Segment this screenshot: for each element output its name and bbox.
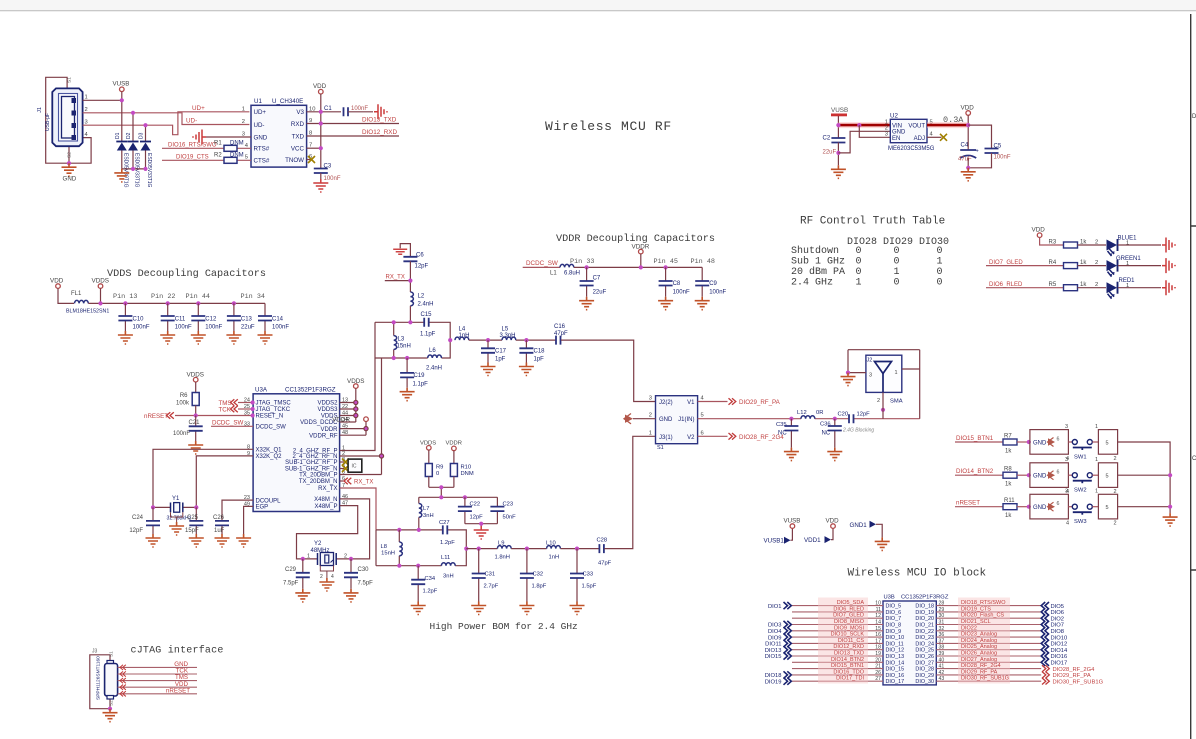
- svg-text:DIO8: DIO8: [1051, 629, 1065, 635]
- capacitor C18: [519, 340, 545, 362]
- vddr section title: [556, 233, 715, 245]
- svg-text:Wireless MCU IO block: Wireless MCU IO block: [848, 568, 987, 580]
- svg-text:DIO12_RXD: DIO12_RXD: [833, 644, 864, 650]
- GND arrow port: [624, 414, 656, 424]
- svg-text:J2(2): J2(2): [659, 400, 673, 406]
- svg-text:Shutdown: Shutdown: [791, 245, 839, 257]
- svg-text:1: 1: [895, 370, 898, 376]
- svg-text:DIO7_GLED: DIO7_GLED: [833, 613, 864, 619]
- svg-text:Pin 13: Pin 13: [113, 293, 137, 301]
- svg-text:2.4 GHz: 2.4 GHz: [791, 277, 833, 288]
- svg-text:CC1352P1F3RGZ: CC1352P1F3RGZ: [285, 387, 336, 394]
- junction SMA stem: [881, 408, 885, 412]
- svg-text:DIO12: DIO12: [1051, 642, 1068, 648]
- vdds section title: [107, 268, 266, 280]
- net label UD-: [186, 118, 197, 125]
- ground C29: [295, 589, 310, 602]
- svg-text:DIO2: DIO2: [1051, 616, 1065, 622]
- svg-text:R10: R10: [461, 465, 472, 471]
- svg-text:DIO_9: DIO_9: [886, 629, 902, 635]
- svg-text:C4: C4: [961, 142, 969, 148]
- junction S2: [67, 161, 71, 165]
- SW1 out wire: [1118, 442, 1171, 513]
- svg-text:V2: V2: [687, 435, 695, 441]
- wire D2 drop: [132, 113, 134, 142]
- svg-text:SPPH1126SMT1160: SPPH1126SMT1160: [96, 656, 102, 700]
- junction C31: [477, 547, 481, 551]
- net VDDS right rail: [347, 378, 365, 422]
- VDDS2 wire: [340, 400, 358, 404]
- junction C33: [575, 547, 579, 551]
- svg-text:VDDR_RF: VDDR_RF: [309, 433, 338, 439]
- table values: [856, 246, 943, 288]
- ground C30: [344, 589, 359, 602]
- svg-text:GND1: GND1: [850, 522, 868, 529]
- svg-text:DIO_28: DIO_28: [915, 667, 934, 673]
- right io wires: [936, 606, 1041, 682]
- inductor L8: [376, 530, 402, 566]
- svg-text:DIO13: DIO13: [765, 648, 782, 654]
- regulator U2 body: [888, 113, 935, 153]
- junction C22 top: [463, 495, 467, 499]
- svg-text:VDD1: VDD1: [804, 537, 821, 544]
- ground C21: [188, 441, 203, 454]
- svg-text:NC: NC: [822, 431, 831, 437]
- svg-text:UD+: UD+: [254, 109, 267, 116]
- U3B right pin names: [915, 604, 934, 686]
- svg-text:DIO16_TDO: DIO16_TDO: [833, 669, 864, 675]
- net label DCDC_SW at pin33: [211, 419, 253, 426]
- frame zone letter C: [1192, 456, 1196, 462]
- svg-text:12pF: 12pF: [470, 515, 484, 521]
- svg-text:R6: R6: [180, 393, 188, 399]
- diode D3: [139, 132, 153, 187]
- vddr bus wire: [574, 266, 702, 268]
- svg-text:S1: S1: [657, 445, 664, 451]
- junction R6/nRESET: [194, 413, 198, 417]
- svg-text:1.8nH: 1.8nH: [495, 555, 510, 561]
- svg-text:2: 2: [320, 574, 323, 580]
- svg-text:DIO_8: DIO_8: [886, 623, 902, 629]
- svg-text:12pF: 12pF: [129, 528, 143, 534]
- capacitor C1: [324, 106, 373, 116]
- ground C34: [411, 602, 426, 615]
- svg-text:3: 3: [649, 396, 652, 402]
- svg-text:3nH: 3nH: [423, 513, 434, 519]
- ground jtag: [103, 709, 118, 722]
- net label DIO13_TXD: [362, 116, 397, 123]
- svg-text:12pF: 12pF: [857, 412, 871, 418]
- matching loop wires: [375, 322, 450, 358]
- ground under diodes: [114, 169, 129, 182]
- svg-text:DIO_29: DIO_29: [915, 673, 934, 679]
- junction V3/VDD: [319, 110, 323, 114]
- svg-text:C7: C7: [593, 276, 601, 282]
- svg-text:1pF: 1pF: [495, 357, 506, 363]
- svg-text:100nF: 100nF: [709, 290, 726, 296]
- net label nRESET: [144, 412, 253, 420]
- pin 1 wire: [83, 99, 122, 101]
- svg-text:0: 0: [436, 471, 439, 477]
- net label nRESET at SW3: [955, 500, 1003, 507]
- ground EGP: [236, 534, 251, 547]
- svg-text:C19: C19: [414, 373, 426, 379]
- svg-text:C35: C35: [776, 422, 787, 428]
- svg-text:1: 1: [894, 267, 900, 278]
- right net labels: [961, 600, 1009, 682]
- svg-text:2.4nH: 2.4nH: [418, 302, 434, 308]
- svg-text:ESD05V30T1G: ESD05V30T1G: [123, 153, 129, 188]
- capacitor C30: [344, 559, 373, 589]
- svg-text:S2: S2: [109, 700, 114, 706]
- diode D2: [126, 132, 140, 187]
- svg-text:DIO_19: DIO_19: [915, 610, 934, 616]
- VCC pin wire: [307, 147, 321, 149]
- svg-text:RX_TX: RX_TX: [354, 480, 373, 486]
- svg-text:TXD: TXD: [292, 133, 305, 140]
- svg-text:100nF: 100nF: [205, 325, 222, 331]
- svg-text:D2: D2: [126, 132, 132, 139]
- svg-text:2: 2: [885, 126, 888, 132]
- CTS wire: [162, 159, 251, 161]
- svg-text:DIO_16: DIO_16: [886, 673, 905, 679]
- svg-text:VUSB: VUSB: [113, 81, 130, 88]
- junction EN tap: [857, 123, 861, 127]
- svg-text:ME6203C53M5G: ME6203C53M5G: [888, 146, 935, 152]
- svg-text:50nF: 50nF: [503, 515, 517, 521]
- svg-text:C23: C23: [503, 502, 514, 508]
- ground under C3: [313, 179, 328, 192]
- svg-text:VUSB: VUSB: [784, 518, 801, 525]
- svg-text:C: C: [1192, 456, 1196, 462]
- svg-text:R2: R2: [214, 153, 222, 159]
- svg-text:DIO7: DIO7: [1051, 623, 1065, 629]
- resistor R4: [1049, 260, 1088, 269]
- capacitor C33: [570, 549, 597, 602]
- ground C24: [146, 534, 161, 547]
- svg-text:DIO23_Analog: DIO23_Analog: [961, 632, 997, 638]
- capacitor C21: [173, 416, 203, 442]
- TXD wire: [307, 135, 399, 137]
- svg-text:VCC: VCC: [291, 146, 305, 153]
- svg-text:DIO18_RTS/SWO: DIO18_RTS/SWO: [961, 600, 1006, 606]
- svg-text:DIO14_BTN2: DIO14_BTN2: [831, 657, 864, 663]
- capacitor C3: [314, 164, 341, 183]
- connector S1 body: [656, 396, 698, 451]
- svg-text:DIO15_BTN1: DIO15_BTN1: [831, 663, 864, 669]
- svg-text:L3: L3: [398, 337, 405, 343]
- X48M_N wire: [340, 499, 370, 559]
- svg-text:NC: NC: [778, 431, 787, 437]
- svg-text:DIO_15: DIO_15: [886, 667, 905, 673]
- svg-text:C15: C15: [421, 312, 433, 318]
- Y1 case ground: [169, 512, 184, 535]
- svg-text:DIO_20: DIO_20: [915, 616, 934, 622]
- capacitor C25: [185, 507, 203, 534]
- DCOUPL wire + capacitor C26: [213, 500, 253, 534]
- SUB-1_GHZ_RF_N no connect: [340, 465, 349, 472]
- capacitor C15: [420, 312, 436, 337]
- svg-text:4: 4: [331, 574, 334, 580]
- ground buttons common: [1163, 513, 1178, 526]
- svg-text:DIO28_RF_2G4: DIO28_RF_2G4: [1053, 667, 1096, 673]
- svg-text:R3: R3: [1049, 239, 1057, 245]
- svg-text:0: 0: [894, 277, 900, 288]
- svg-text:5: 5: [1106, 441, 1109, 447]
- io block title: [848, 568, 987, 580]
- junction VDDS: [98, 301, 102, 305]
- junction C17: [486, 338, 490, 342]
- ground C12: [191, 331, 206, 344]
- svg-text:DIO19: DIO19: [765, 679, 782, 685]
- svg-text:C2: C2: [823, 136, 831, 142]
- ground C35: [784, 448, 799, 461]
- svg-text:UD+: UD+: [192, 105, 205, 112]
- right io port labels: [1051, 604, 1069, 667]
- svg-text:DIO3: DIO3: [768, 623, 782, 629]
- svg-text:VDD: VDD: [1032, 227, 1046, 234]
- SUB-1_GHZ_RF_P no connect: [340, 459, 349, 466]
- resistor R7: [1003, 434, 1030, 455]
- junction R8 out: [1027, 473, 1031, 477]
- svg-text:Pin 48: Pin 48: [691, 258, 715, 266]
- ground C17: [481, 363, 496, 376]
- junction VUSB rail: [836, 123, 840, 127]
- VDDS3 wire: [340, 407, 358, 411]
- ground SMA: [841, 373, 856, 386]
- svg-text:C31: C31: [485, 572, 496, 578]
- svg-text:0: 0: [937, 246, 943, 257]
- svg-text:RX_TX: RX_TX: [318, 486, 337, 492]
- U3B left pin names: [886, 604, 905, 686]
- ground C8: [658, 297, 673, 310]
- net VDD at U1: [313, 83, 327, 169]
- svg-text:3: 3: [1065, 489, 1068, 495]
- svg-text:100nF: 100nF: [173, 431, 190, 437]
- svg-text:DIO16_RTS/SWO: DIO16_RTS/SWO: [168, 142, 217, 148]
- svg-text:DIO_25: DIO_25: [915, 648, 934, 654]
- R9/R10 join wire: [429, 487, 454, 497]
- svg-text:DIO19_CTS: DIO19_CTS: [176, 154, 209, 160]
- svg-text:C20: C20: [838, 412, 849, 418]
- port VUSB1: [764, 518, 801, 545]
- top bus to C27: [376, 530, 466, 549]
- svg-text:2: 2: [242, 119, 245, 125]
- capacitor C2: [823, 136, 846, 166]
- svg-text:DIO12_RXD: DIO12_RXD: [362, 129, 397, 136]
- svg-text:X32K_Q2: X32K_Q2: [256, 454, 283, 460]
- svg-text:1uF: 1uF: [214, 528, 225, 534]
- svg-text:UD-: UD-: [186, 118, 197, 125]
- svg-text:VOUT: VOUT: [908, 123, 925, 129]
- V3 pin wire: [307, 111, 341, 113]
- svg-text:R4: R4: [1049, 260, 1057, 266]
- svg-text:DIO7_GLED: DIO7_GLED: [989, 260, 1023, 266]
- svg-text:JTAG_TCKC: JTAG_TCKC: [256, 407, 291, 413]
- svg-text:DIO17: DIO17: [1051, 661, 1068, 667]
- net VDDR at R10: [446, 441, 462, 464]
- resistor R5: [1049, 282, 1088, 291]
- svg-text:DIO4: DIO4: [768, 629, 782, 635]
- connector J1 USB frame wire: [46, 77, 91, 163]
- resistor R3: [1049, 239, 1088, 248]
- svg-text:TNOW: TNOW: [285, 157, 304, 164]
- capacitor C27: [439, 520, 455, 546]
- svg-text:GND: GND: [1033, 474, 1047, 480]
- RTS wire: [162, 147, 251, 149]
- bom caption: [430, 621, 578, 632]
- wire LED2 to gnd: [1118, 265, 1161, 267]
- junction SW2 common: [1168, 473, 1172, 477]
- wire R3 to LED1: [1078, 240, 1107, 246]
- svg-text:C11: C11: [175, 317, 186, 323]
- capacitor C28: [597, 538, 612, 567]
- svg-text:3: 3: [1065, 457, 1068, 463]
- svg-text:1.2pF: 1.2pF: [423, 589, 438, 595]
- svg-text:J1: J1: [37, 107, 43, 113]
- svg-text:2: 2: [85, 107, 88, 113]
- svg-text:2: 2: [877, 398, 880, 404]
- ground right of LED2: [1162, 258, 1175, 273]
- X32K_Q2 wire: [196, 456, 253, 508]
- junction C35: [789, 417, 793, 421]
- svg-text:SUB-1_GHZ_RF_P: SUB-1_GHZ_RF_P: [285, 460, 337, 466]
- svg-text:ESD05V33T1G: ESD05V33T1G: [134, 153, 140, 188]
- svg-text:47uF: 47uF: [958, 157, 972, 163]
- svg-text:R9: R9: [436, 465, 443, 471]
- svg-text:C16: C16: [554, 324, 566, 330]
- ground right of LED1: [1162, 238, 1175, 253]
- junction Y2 pin2: [349, 557, 353, 561]
- svg-text:C14: C14: [272, 317, 284, 323]
- svg-text:SMA: SMA: [890, 399, 903, 405]
- svg-text:4: 4: [1066, 521, 1069, 527]
- net label UD+: [192, 105, 205, 112]
- svg-text:100k: 100k: [176, 401, 190, 407]
- cjtag pin wires: [118, 667, 197, 693]
- svg-text:1.2pF: 1.2pF: [440, 540, 455, 546]
- svg-text:Y2: Y2: [314, 541, 322, 547]
- junction chain node: [464, 547, 468, 551]
- svg-text:C13: C13: [241, 317, 253, 323]
- connector J3 body: [96, 656, 118, 700]
- svg-text:L7: L7: [423, 506, 429, 512]
- svg-text:Pin 34: Pin 34: [241, 293, 265, 301]
- svg-text:0: 0: [894, 246, 900, 257]
- svg-text:J2: J2: [867, 358, 873, 364]
- right rf chevrons: [1042, 665, 1049, 684]
- svg-text:0: 0: [894, 256, 900, 267]
- svg-text:DIO6_RLED: DIO6_RLED: [833, 606, 864, 612]
- wire LED3 to gnd: [1118, 287, 1161, 289]
- svg-text:1k: 1k: [1005, 513, 1012, 519]
- right io port arrows: [1041, 602, 1049, 666]
- svg-text:DIO18: DIO18: [765, 673, 782, 679]
- junction bus feed: [439, 495, 443, 499]
- VDDR_RF wire: [340, 434, 366, 436]
- svg-text:J1(IN): J1(IN): [678, 417, 694, 423]
- capacitor C20: [838, 412, 875, 434]
- svg-text:DIO24_Analog: DIO24_Analog: [961, 638, 997, 644]
- net label DIO19_CTS: [176, 154, 209, 160]
- svg-text:22uF: 22uF: [593, 290, 607, 296]
- svg-text:C29: C29: [285, 567, 297, 573]
- LED GREEN1: [1107, 256, 1142, 277]
- svg-text:U3A: U3A: [255, 387, 268, 394]
- svg-text:0: 0: [856, 246, 862, 257]
- MCU U3A body: [253, 387, 340, 512]
- svg-text:CC1352P1F3RGZ: CC1352P1F3RGZ: [901, 595, 949, 601]
- svg-text:3: 3: [1065, 424, 1068, 430]
- svg-text:DIO_30: DIO_30: [915, 679, 934, 685]
- junction L2 top edge: [408, 320, 412, 324]
- svg-text:1: 1: [649, 430, 652, 436]
- junction C18: [524, 338, 528, 342]
- capacitor C23: [490, 502, 516, 524]
- LED RED1: [1107, 278, 1136, 299]
- wire VDD to C5 branch: [968, 125, 991, 148]
- capacitor C11: [161, 301, 192, 331]
- svg-text:C8: C8: [673, 281, 681, 287]
- svg-text:VDDR: VDDR: [320, 427, 338, 433]
- svg-text:1: 1: [1126, 241, 1129, 247]
- table rows: [791, 245, 845, 288]
- svg-text:High Power BOM for 2.4 GHz: High Power BOM for 2.4 GHz: [430, 621, 578, 632]
- capacitor C10: [118, 301, 149, 331]
- switch SW3: [1065, 489, 1118, 527]
- ground C18: [519, 363, 534, 376]
- svg-text:DIO5_SDA: DIO5_SDA: [837, 600, 865, 606]
- svg-text:6: 6: [701, 430, 704, 436]
- net label VUSB highlighted: [831, 107, 848, 138]
- svg-text:DIO_12: DIO_12: [886, 648, 905, 654]
- net VDD at LEDs: [1032, 227, 1064, 246]
- inductor L5: [500, 327, 557, 341]
- resistor R8: [1003, 467, 1030, 488]
- ground under C2: [831, 165, 846, 178]
- svg-text:X48M_N: X48M_N: [314, 497, 337, 503]
- svg-text:2: 2: [649, 413, 652, 419]
- svg-text:GND: GND: [892, 130, 906, 136]
- svg-text:100nF: 100nF: [272, 325, 289, 331]
- net label DIO12_RXD: [362, 129, 397, 136]
- junction SMA gnd: [846, 371, 850, 375]
- svg-text:DIO_10: DIO_10: [886, 635, 905, 641]
- inductor L10: [546, 541, 599, 561]
- svg-text:DIO29_RF_PA: DIO29_RF_PA: [1053, 673, 1091, 679]
- junction C32: [525, 547, 529, 551]
- MCU U3B body: [883, 595, 949, 685]
- svg-text:0: 0: [937, 277, 943, 288]
- svg-text:DIO5: DIO5: [1051, 604, 1065, 610]
- svg-text:SW2: SW2: [1074, 488, 1087, 494]
- VDDS_DCDC wire: [340, 421, 356, 423]
- svg-text:DIO14_BTN2: DIO14_BTN2: [956, 468, 994, 475]
- pin labels: [113, 293, 265, 301]
- capacitor C16: [554, 324, 568, 345]
- net VDDR right: [332, 417, 368, 436]
- svg-text:DIO_23: DIO_23: [915, 635, 934, 641]
- svg-text:6: 6: [1057, 470, 1060, 476]
- capacitor C14: [258, 303, 289, 331]
- svg-text:CTS#: CTS#: [254, 158, 270, 165]
- svg-text:L6: L6: [429, 348, 436, 354]
- svg-text:6.8uH: 6.8uH: [564, 271, 580, 277]
- svg-text:EGP: EGP: [256, 505, 269, 511]
- svg-text:C18: C18: [534, 349, 546, 355]
- left io port labels: [765, 604, 783, 686]
- capacitor C24: [129, 507, 160, 534]
